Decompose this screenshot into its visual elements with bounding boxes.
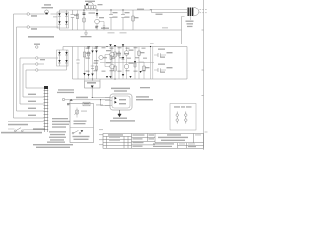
bridge BR1 outline	[57, 12, 69, 28]
box text	[74, 121, 87, 122]
title cell	[155, 134, 204, 149]
cap C5 with diode	[92, 47, 94, 80]
transistor Q3	[110, 52, 115, 57]
transistor Q6	[124, 64, 129, 69]
electrolytic cap C3	[122, 10, 124, 30]
resistor R10	[88, 47, 90, 80]
strip notes	[52, 118, 68, 119]
amp label scatter	[86, 45, 148, 78]
filter cap C1	[72, 10, 74, 30]
title block frame	[103, 134, 204, 149]
border tick	[202, 30, 204, 96]
resistor R4	[114, 47, 116, 80]
ground sym PSU	[84, 30, 88, 35]
bottom notes	[33, 144, 73, 145]
secondary terminal B	[36, 63, 39, 66]
wire fuse to bridge	[51, 13, 59, 15]
fuse F1	[45, 10, 49, 14]
wire bridge BR1 output	[60, 10, 153, 12]
chassis ground arrow	[118, 110, 121, 117]
diode D7	[109, 44, 111, 46]
wire left bus 4	[23, 64, 44, 97]
wire N to bridge	[29, 26, 58, 28]
bridge rectifier BR2	[58, 50, 68, 66]
power switch S1	[74, 130, 79, 133]
resistor R8	[118, 47, 120, 80]
transistor Q7	[99, 55, 103, 59]
AC inlet module U1	[105, 94, 132, 110]
line terminal T5	[62, 98, 65, 101]
wires terminals to bridge2	[38, 58, 57, 70]
revision table	[103, 136, 132, 145]
bus labels	[28, 94, 36, 95]
J1 cable clamp	[190, 16, 192, 20]
control box B1	[70, 104, 94, 143]
small note right	[140, 87, 150, 88]
left lower caption	[8, 124, 28, 126]
note column	[49, 131, 66, 132]
wire inlet pin3	[101, 100, 111, 106]
diode D6	[122, 47, 124, 80]
relay box K1	[85, 81, 101, 88]
dashed leads J1	[200, 9, 208, 13]
switch caption	[73, 136, 90, 137]
resistor R11	[96, 47, 98, 80]
secondary terminal A	[36, 57, 39, 60]
caption fig1	[28, 36, 54, 38]
connector J1	[188, 8, 200, 17]
potentiometer VR1	[76, 108, 78, 118]
wire rail to connector	[150, 9, 187, 12]
resistor R12	[77, 10, 79, 30]
amp right edge	[186, 47, 188, 80]
wire mains to inlet	[65, 100, 110, 103]
wire mid bus	[151, 47, 153, 80]
info cells	[132, 134, 156, 145]
transistor Q2	[95, 19, 100, 24]
wire amp mid rail	[100, 62, 154, 64]
wire left bus 3	[20, 58, 44, 104]
sheet right border	[203, 0, 205, 150]
electrolytic cap C2	[110, 10, 112, 30]
output cap C7	[154, 69, 166, 71]
junction dots	[83, 9, 84, 10]
power select label	[58, 89, 74, 90]
transistor Q4	[110, 64, 115, 69]
bridge rectifier BR1	[58, 12, 68, 28]
earth terminal E	[36, 46, 39, 49]
module right label	[136, 96, 149, 97]
resistor R5	[138, 47, 140, 80]
resistor R9	[134, 47, 136, 80]
sheet micro notes	[99, 129, 103, 130]
secondary terminal C	[36, 69, 39, 72]
terminal strip TS1	[44, 86, 49, 132]
module top label	[111, 88, 130, 90]
amp bottom rail	[73, 78, 188, 80]
zener D5	[96, 10, 98, 18]
resistor R2	[132, 10, 134, 30]
wire left bus 1	[14, 14, 45, 118]
ground sym amp	[92, 79, 94, 81]
speaker jack box J2	[170, 104, 196, 131]
wire BR2 to rails	[63, 47, 73, 80]
jack pin P2	[185, 112, 187, 124]
jack pin P1	[176, 112, 178, 124]
wire left bus 2	[17, 27, 45, 111]
pass transistor Q1	[85, 5, 97, 8]
AC line terminal L	[27, 13, 30, 16]
wire L to fuse	[29, 13, 44, 15]
resistor R3	[84, 47, 86, 80]
AC neutral terminal N	[27, 26, 30, 29]
dark mark D8	[140, 71, 142, 73]
bridge BR2 outline	[57, 50, 69, 66]
resistor R6	[139, 62, 144, 79]
resistor R7	[110, 47, 112, 80]
resistor R1	[83, 10, 85, 30]
output cap C6	[154, 54, 166, 56]
wire connector return	[181, 17, 183, 45]
wire relay down	[92, 88, 110, 98]
amp top rail	[73, 46, 188, 48]
border tick note	[205, 132, 208, 133]
transistor Q5	[124, 51, 129, 56]
bottom-left caption	[1, 132, 42, 134]
cap C4	[77, 47, 79, 80]
mains switch S2	[8, 120, 44, 122]
